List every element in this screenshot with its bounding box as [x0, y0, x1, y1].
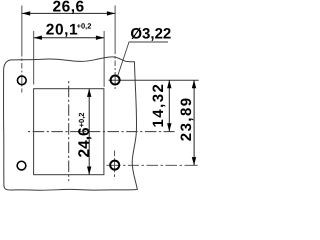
- horizontal centerline from hole bottom-right: [107, 164, 198, 166]
- svg-text:26,6: 26,6: [53, 0, 85, 15]
- svg-text:23,89: 23,89: [178, 96, 195, 141]
- dimension 24,6 line: [88, 89, 90, 175]
- mounting hole bottom-right: [110, 161, 119, 170]
- mounting hole top-left: [17, 76, 26, 85]
- horizontal centerline of cutout: [28, 131, 175, 133]
- dimension 26,6 line: [22, 12, 115, 14]
- leader line to hole top-right: [118, 42, 168, 76]
- vertical centerline of cutout: [68, 81, 70, 181]
- svg-text:20,1+0,2: 20,1+0,2: [46, 21, 92, 38]
- vertical centerline of hole bottom-right: [114, 151, 116, 178]
- svg-text:14,32: 14,32: [150, 83, 167, 128]
- extension line left (20,1): [33, 31, 35, 85]
- dimension 20,1 line: [34, 37, 104, 39]
- dimension 23,89 line: [193, 80, 195, 165]
- svg-text:24,6+0,2: 24,6+0,2: [76, 113, 93, 158]
- centerline through hole top-left: [21, 6, 23, 93]
- svg-text:Ø3,22: Ø3,22: [130, 25, 171, 42]
- horizontal centerline / extension line from hole top-right: [109, 79, 199, 81]
- extension line right (20,1): [103, 31, 105, 87]
- panel outline (broken-out section, wavy edges): [4, 57, 138, 190]
- dimension 14,32 line: [168, 80, 170, 132]
- mounting hole top-right: [111, 76, 120, 85]
- centerline through hole top-right: [114, 6, 116, 90]
- mounting hole bottom-left: [17, 161, 26, 170]
- cutout rectangle: [34, 89, 104, 175]
